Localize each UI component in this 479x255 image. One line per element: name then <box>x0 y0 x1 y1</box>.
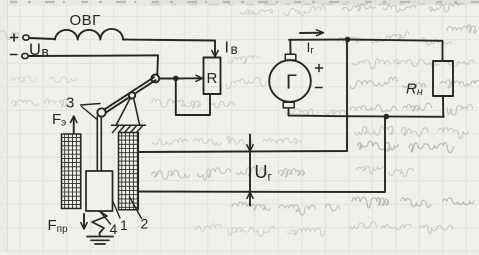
top-right wire from generator to Rn <box>289 40 443 62</box>
generator G circle <box>269 60 311 102</box>
leader line for label 4 <box>101 212 111 224</box>
svg-text:Г: Г <box>286 72 297 94</box>
generator top brush <box>285 54 296 60</box>
fulcrum pin circle <box>129 92 135 98</box>
armature core block 1 <box>86 171 113 211</box>
wire from + terminal to inductor <box>29 38 55 39</box>
svg-text:4: 4 <box>110 221 118 237</box>
wire generator top to top-right wire <box>289 40 291 54</box>
wire Rn bottom to bottom wire <box>442 96 444 117</box>
generator bottom brush <box>283 102 294 108</box>
coil hatching right <box>119 133 139 210</box>
node junction bottom (to coil) <box>384 114 390 120</box>
plunger rod link <box>97 116 101 171</box>
spring 4 zigzag <box>92 211 107 233</box>
wire loop from junction to R bottom <box>176 81 210 115</box>
solenoid coil left half (hatched) <box>62 134 81 209</box>
wire from coil top terminal to top junction <box>138 40 347 153</box>
fulcrum base with hatching <box>112 125 146 132</box>
leader line for label 1 <box>113 201 121 219</box>
svg-text:ОВГ: ОВГ <box>70 12 101 29</box>
fulcrum support triangle <box>117 98 140 125</box>
svg-text:3: 3 <box>66 95 74 112</box>
inductor OVG (generator field winding) <box>55 29 123 40</box>
svg-text:Uв: Uв <box>29 41 49 60</box>
force Fe arrow up <box>71 116 77 133</box>
node junction at rheostat wiper <box>173 76 179 82</box>
coil hatching left <box>62 134 81 209</box>
wiper arrow into R <box>179 75 203 81</box>
generator polarity - mark <box>316 87 323 89</box>
generator polarity + mark <box>316 65 323 72</box>
leader line for label 2 <box>130 197 142 219</box>
wire from inductor to Iv corner <box>123 40 215 41</box>
bottom wire from generator to Rn <box>289 108 444 117</box>
lever arm bar <box>101 77 156 114</box>
current Ig arrow <box>300 30 324 36</box>
ground symbol <box>87 233 113 244</box>
svg-text:2: 2 <box>141 216 149 232</box>
wire from lever joint to junction <box>159 78 173 80</box>
wire from - terminal to lever pivot <box>28 55 158 74</box>
solenoid coil right half (hatched) <box>119 133 139 210</box>
svg-text:1: 1 <box>120 217 128 233</box>
lever lower joint circle <box>97 108 105 116</box>
force Fpr arrow down <box>81 214 87 229</box>
svg-text:R: R <box>207 70 218 87</box>
lever end joint circle <box>151 75 159 83</box>
leader lines for label 3 <box>81 104 101 120</box>
Ug measurement arrow <box>247 135 253 206</box>
load resistor Rn <box>433 61 453 96</box>
wire with Iv arrow down into resistor R <box>212 41 218 57</box>
terminal + of Uv source <box>11 34 30 41</box>
wire from coil bottom terminal to bottom junction <box>138 117 385 192</box>
resistor R (field rheostat) <box>204 58 221 95</box>
svg-text:Iв: Iв <box>225 40 238 58</box>
terminal - of Uv source <box>11 53 29 58</box>
node junction top (to coil) <box>345 37 351 43</box>
